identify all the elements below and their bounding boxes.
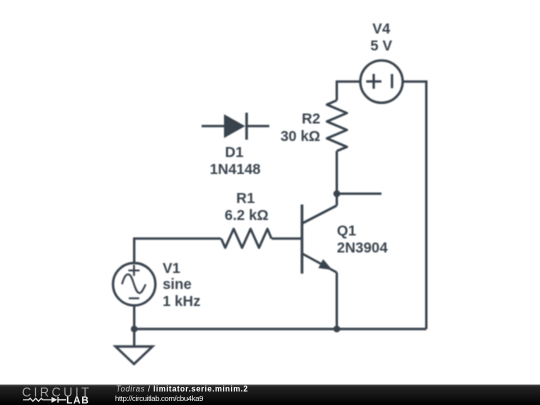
wire (134, 328, 426, 330)
svg-text:Todiras / limitator.serie.mini: Todiras / limitator.serie.minim.2 (116, 384, 248, 393)
svg-text:R1: R1 (236, 191, 255, 207)
resistor R1 (221, 229, 271, 248)
wire (133, 329, 135, 347)
voltage source V1 (113, 263, 155, 305)
transistor Q1 (302, 205, 337, 274)
svg-text:R2: R2 (302, 111, 321, 127)
wire (133, 306, 135, 329)
svg-text:LAB: LAB (66, 395, 89, 405)
resistor R2 (327, 100, 347, 151)
node C (131, 326, 138, 333)
svg-text:http://circuitlab.com/cbu4ka9: http://circuitlab.com/cbu4ka9 (115, 394, 203, 403)
svg-text:2N3904: 2N3904 (337, 241, 388, 257)
ground (116, 347, 153, 365)
wire (403, 82, 426, 329)
svg-text:Q1: Q1 (337, 224, 356, 240)
CircuitLab logo (22, 385, 91, 405)
wire (336, 273, 338, 330)
wire (134, 239, 221, 263)
wire (272, 237, 302, 239)
svg-text:6.2 kΩ: 6.2 kΩ (225, 208, 269, 224)
svg-text:D1: D1 (225, 145, 244, 161)
voltage source V4 (360, 60, 402, 102)
footer bar (0, 385, 540, 405)
svg-text:V1: V1 (163, 261, 181, 277)
svg-text:1N4148: 1N4148 (210, 162, 261, 178)
svg-text:1 kHz: 1 kHz (163, 294, 201, 310)
svg-text:sine: sine (163, 277, 192, 293)
diode D1 (202, 113, 270, 140)
svg-text:5 V: 5 V (370, 39, 392, 55)
svg-text:30 kΩ: 30 kΩ (280, 129, 320, 145)
svg-text:V4: V4 (372, 21, 390, 37)
node B (333, 326, 340, 333)
wire (337, 192, 382, 194)
node A (333, 190, 340, 197)
wire (336, 151, 338, 206)
wire (337, 82, 360, 101)
